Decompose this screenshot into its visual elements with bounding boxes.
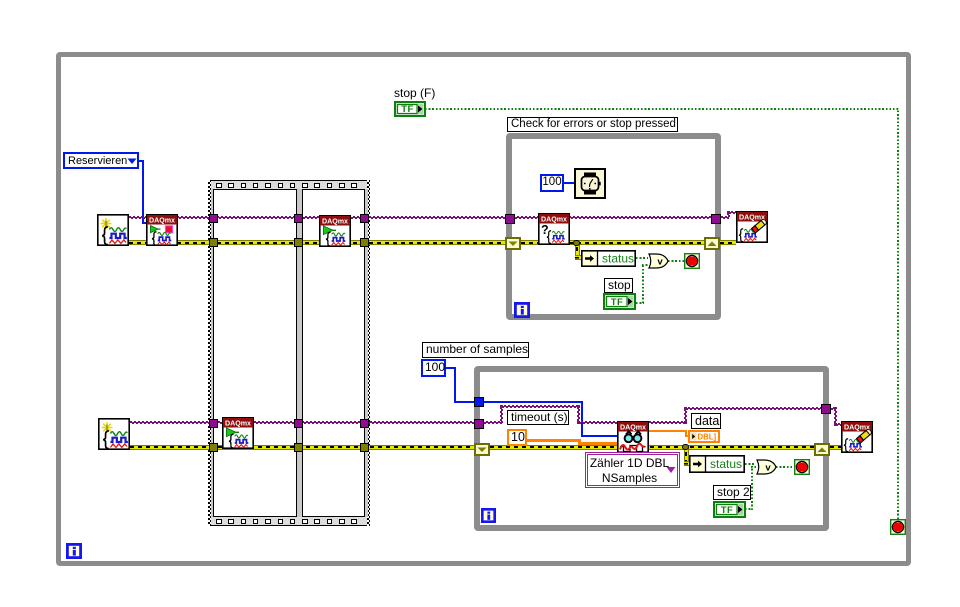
condition terminal (check loop) xyxy=(684,253,700,269)
wire: top error wire to clear task xyxy=(720,240,736,245)
wire: bottom error wire xyxy=(130,445,814,450)
shift register right (read loop) xyxy=(814,443,830,456)
wire: green OR out to loop condition (top loop) xyxy=(668,260,684,262)
wire: number of samples blue xyxy=(446,367,455,369)
tunnel error seq left (bottom) xyxy=(209,443,218,452)
enum constant Reservieren xyxy=(63,152,139,169)
wire: error branch down to status unbundle (top loop) xyxy=(575,243,580,258)
junction dot top error wire xyxy=(573,240,580,247)
sequence right checkered edge xyxy=(367,180,370,526)
sequence bottom film band xyxy=(208,516,370,526)
shift register left (check loop) xyxy=(505,237,521,250)
label stop (F) xyxy=(394,86,435,100)
svg-text:DAQmx: DAQmx xyxy=(322,218,348,226)
wire: bottom error to clear task 2 xyxy=(830,445,841,450)
icon Wait (ms) xyxy=(574,168,606,199)
tunnel error seq right (top) xyxy=(360,238,369,247)
tunnel purple read-loop left xyxy=(474,419,484,429)
wire: stop(F) boolean dotted to right edge xyxy=(425,108,898,110)
unbundle status (check loop) xyxy=(581,250,636,267)
svg-text:TF: TF xyxy=(401,104,414,115)
iteration terminal (read loop) xyxy=(481,508,496,523)
junction dot bottom error wire xyxy=(682,444,689,451)
wire: green status to OR (top loop) xyxy=(636,257,648,259)
label Check for errors or stop pressed xyxy=(507,117,678,132)
wire: orange read to DBL array indicator xyxy=(649,430,687,433)
wire: top error wire xyxy=(129,240,704,245)
svg-text:DBL]: DBL] xyxy=(698,432,717,441)
label data xyxy=(691,413,721,429)
svg-text:status: status xyxy=(710,457,742,471)
icon DAQmx Clear Task (bottom) xyxy=(841,421,873,453)
numeric constant 100 (samples) xyxy=(421,359,446,377)
or gate (check loop) xyxy=(648,253,669,269)
wire: bottom purple task wire (left run) xyxy=(130,421,502,424)
tunnel purple seq divider (bottom) xyxy=(294,419,303,428)
tunnel error seq left (top) xyxy=(209,238,218,247)
icon DAQmx task control (top, play/stop) xyxy=(146,214,178,246)
tunnel purple seq right (bottom) xyxy=(360,419,369,428)
iteration terminal (outer loop) xyxy=(66,543,82,559)
svg-text:v: v xyxy=(765,462,771,473)
tunnel purple check-loop left xyxy=(505,214,515,224)
wire: green OR out to loop condition (read loop) xyxy=(776,466,794,468)
condition terminal (outer loop) xyxy=(890,519,906,535)
svg-text:status: status xyxy=(602,252,634,266)
tunnel blue read-loop left xyxy=(474,397,484,407)
svg-text:TF: TF xyxy=(611,297,624,308)
or gate (read loop) xyxy=(756,459,777,475)
sequence left edge gray gap xyxy=(211,189,214,517)
purple outside loop down to clear task 2 xyxy=(829,407,836,410)
wire: top purple jog up at clear task xyxy=(727,211,730,219)
wire: blue inside read loop xyxy=(483,401,582,403)
svg-text:DAQmx: DAQmx xyxy=(620,424,646,432)
sequence frame1 left line xyxy=(213,189,214,517)
icon DAQmx Start Task (sequence frame 1) xyxy=(222,417,254,449)
numeric constant 100 (wait) xyxy=(540,174,564,192)
wire: Reservieren enum blue down xyxy=(139,160,144,162)
sequence top film band xyxy=(208,180,370,190)
array indicator DBL xyxy=(688,430,720,443)
svg-text:TF: TF xyxy=(721,505,734,516)
wire: error branch down to status unbundle (read loop) xyxy=(684,448,689,464)
shift register right (check loop) xyxy=(704,237,720,250)
tunnel error seq divider (bottom) xyxy=(294,443,303,452)
while loop: read loop xyxy=(474,366,829,531)
sequence frame2 right line xyxy=(364,189,365,517)
wire: boolean dotted down right side xyxy=(897,108,899,519)
iteration terminal (check loop) xyxy=(514,302,530,318)
icon DAQmx Start Task (sequence frame 2) xyxy=(319,215,351,247)
svg-text:DAQmx: DAQmx xyxy=(149,217,175,225)
wire: green stop2 TF to OR (read loop) xyxy=(745,508,752,510)
purple bump up over timeout label xyxy=(500,405,503,424)
condition terminal (read loop) xyxy=(794,459,810,475)
sequence left checkered edge xyxy=(208,180,211,526)
while loop: check for errors xyxy=(506,133,721,320)
boolean terminal stop xyxy=(603,293,636,310)
tunnel purple seq left (top) xyxy=(209,214,218,223)
wire: green stop TF to OR (top loop) xyxy=(636,302,644,304)
tunnel purple read-loop right xyxy=(821,404,831,414)
boolean terminal stop 2 xyxy=(713,501,746,518)
wire: blue 100 to wait xyxy=(564,182,574,184)
icon DAQmx Clear Task (top) xyxy=(736,211,768,243)
shift register left (read loop) xyxy=(474,443,490,456)
purple from read icon to right tunnel xyxy=(649,421,687,424)
outer while loop border xyxy=(56,52,911,566)
sequence right edge gray gap xyxy=(365,189,368,517)
sequence frame divider xyxy=(296,189,303,517)
tunnel purple seq divider (top) xyxy=(294,214,303,223)
tunnel purple seq right (top) xyxy=(360,214,369,223)
tunnel purple check-loop right xyxy=(711,214,721,224)
wire: top purple task wire xyxy=(129,216,729,219)
svg-text:DAQmx: DAQmx xyxy=(225,420,251,428)
label timeout (s) xyxy=(507,410,569,425)
selector dropdown arrow xyxy=(666,466,676,474)
unbundle status (read loop) xyxy=(689,455,745,473)
svg-text:v: v xyxy=(657,256,663,267)
polymorphic selector Zaehler 1D DBL NSamples xyxy=(585,452,680,488)
svg-text:?: ? xyxy=(541,223,549,237)
label stop 2 xyxy=(713,485,751,500)
tunnel error seq right (bottom) xyxy=(360,443,369,452)
icon DAQmx Create Virtual Channel (top) xyxy=(97,214,129,246)
wire: green status to OR (read loop) xyxy=(745,463,756,465)
tunnel error seq divider (top) xyxy=(294,238,303,247)
label number of samples xyxy=(422,342,529,358)
numeric constant 10 xyxy=(507,429,527,446)
tunnel purple seq left (bottom) xyxy=(209,419,218,428)
film hole top xyxy=(216,183,222,189)
film hole bottom xyxy=(216,519,222,525)
icon DAQmx Create Virtual Channel (bottom) xyxy=(98,418,130,450)
wire: orange 10 to read xyxy=(527,439,580,442)
label stop xyxy=(604,278,633,293)
icon DAQmx Is Task Done xyxy=(538,213,570,245)
boolean terminal stop (F) xyxy=(394,101,426,117)
icon DAQmx Read xyxy=(617,421,649,453)
